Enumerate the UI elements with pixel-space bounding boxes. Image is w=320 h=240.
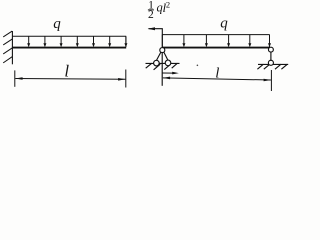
svg-text:l: l [215,66,219,82]
hinge circle (left support) [160,48,165,53]
support left leg [156,52,161,61]
load arrow 4 [76,37,79,48]
load arrow 3 [60,37,63,48]
link bottom circle [268,60,273,65]
ground hatch 2 [154,64,161,70]
wall hatch 3 [3,48,12,54]
ground hatch r4 [281,64,287,69]
load arrow r4 [248,35,251,48]
dimension l (left beam) [15,70,126,88]
load right edge (left beam) [125,36,127,47]
left beam (cantilever) [12,47,126,49]
right support (link) [257,47,288,69]
dim arrowhead left (right dim) [163,77,171,80]
svg-text:2: 2 [166,0,170,9]
small ink speck [197,65,199,67]
svg-text:l: l [64,62,69,81]
distributed load arrows (right beam) [182,35,271,48]
load top line (right beam) [162,34,269,36]
ground line (right support) [258,63,288,65]
right beam [162,47,270,49]
ground hatch r1 [257,64,263,69]
distributed load arrows (left beam) [27,37,127,48]
ground hatch 3 [164,64,170,69]
right dim tick [270,70,272,91]
ground hatch r2 [264,64,270,69]
dim line (right) [163,78,271,80]
dim arrowhead right (right dim) [264,79,272,82]
load arrow 5 [92,37,95,48]
load arrow r1 [182,35,185,48]
load arrow 6 [108,37,111,48]
ground hatch 1 [146,63,152,68]
svg-text:q: q [220,16,228,32]
left support (hinge on rollers) [146,48,180,86]
ground hatch 4 [172,63,178,68]
wall hatch 2 [3,39,12,45]
right dim tick [125,70,127,88]
load arrow r2 [205,35,208,48]
load arrow 1 [27,37,30,48]
wall hatch 1 [3,31,12,37]
svg-text:2: 2 [148,9,154,21]
load top line (left beam) [12,35,126,37]
wall hatch 4 [3,57,12,63]
dim arrowhead right [118,78,126,81]
load arrow r3 [227,35,230,48]
load arrow 7 (at right end) [124,37,127,48]
dim arrowhead left [15,77,23,80]
dim line [15,78,125,81]
roller circle left [154,60,160,66]
left dim tick [14,70,16,86]
fixed wall vertical line [11,31,13,64]
hinge circle (right support) [268,47,273,52]
short x arrow at left support [163,72,179,75]
load left edge (right beam) [161,35,163,47]
load right edge (right beam) [269,35,271,47]
link line [270,52,272,62]
svg-text:q: q [53,16,61,32]
support right leg [164,52,169,61]
load arrow 2 [43,37,46,48]
dim tick through support [161,52,163,86]
dimension l (right beam) [163,70,272,91]
load arrow r5 (at right end) [268,35,271,48]
ground hatch r3 [275,64,281,69]
moment couple arrow (bent) [148,27,163,47]
ground line (left support) [146,62,180,64]
label 1/2 q l^2 (moment value) [148,0,170,21]
roller circle right [165,60,171,66]
